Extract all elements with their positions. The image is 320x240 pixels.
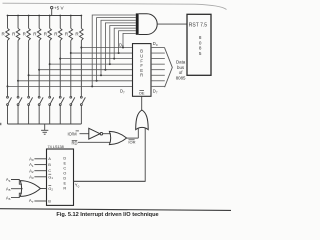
wire A6 to OR bbox=[11, 193, 22, 197]
wire A5 to OR bbox=[11, 188, 23, 190]
node: tap junction col 7 to buffer line 1 bbox=[70, 52, 72, 54]
wire: buffer output D2 bbox=[151, 58, 165, 60]
wire: buffer input line D4 from column junction to buffer bbox=[39, 69, 132, 71]
switch SW3 bbox=[28, 96, 30, 98]
wire: rail to resistor col 8 bbox=[80, 16, 82, 29]
OR gate U-up for OE bbox=[136, 110, 149, 130]
node: line D6 to AND riser bbox=[96, 80, 98, 82]
wire: IOR OR output up to OE-OR bbox=[127, 137, 139, 139]
wire switch 1 to ground rail bbox=[7, 106, 9, 125]
wire: buffer input line D3 from column junction to buffer bbox=[50, 63, 133, 65]
node: tap junction col 4 to buffer line 4 bbox=[38, 69, 40, 71]
node: +5V rail junction col 1 bbox=[7, 15, 9, 17]
wire switch 8 to ground rail bbox=[80, 106, 82, 125]
wire: buffer output D1 bbox=[151, 52, 165, 54]
wire: riser and AND gate input 8 bbox=[123, 33, 136, 47]
svg-text:A: A bbox=[48, 156, 51, 161]
wire A7 to decoder bbox=[34, 200, 46, 202]
svg-text:8085: 8085 bbox=[176, 75, 186, 80]
+5V supply terminal bbox=[51, 6, 53, 8]
svg-text:D7: D7 bbox=[120, 89, 125, 95]
wire: rail to resistor col 5 bbox=[49, 16, 51, 29]
svg-text:5: 5 bbox=[199, 51, 202, 56]
wire: resistor col 1 down to switch bbox=[7, 40, 9, 96]
svg-text:A2: A2 bbox=[29, 168, 34, 174]
OR gate for A4-A6 bbox=[20, 181, 40, 197]
resistor R (column 6) bbox=[58, 28, 62, 40]
node: tap junction col 6 to buffer line 2 bbox=[59, 58, 61, 60]
resistor R (column 2) bbox=[16, 28, 20, 40]
wire: resistor col 2 down to switch bbox=[17, 40, 19, 96]
wire: resistor col 7 down to switch bbox=[70, 40, 72, 96]
switch SW7 bbox=[70, 96, 72, 98]
resistor R (column 7) bbox=[69, 28, 73, 40]
svg-text:A1: A1 bbox=[29, 162, 34, 168]
wire: riser and AND gate input 6 bbox=[114, 28, 136, 58]
wire: buffer input line D6 from column junction to buffer bbox=[18, 80, 132, 82]
node: tap junction col 8 to buffer line 0 bbox=[80, 47, 82, 49]
wire: inverter to OR bbox=[103, 133, 111, 135]
svg-text:D0: D0 bbox=[119, 42, 124, 48]
wire: resistor col 3 down to switch bbox=[28, 40, 30, 96]
resistor R (column 5) bbox=[48, 28, 52, 40]
wire: buffer OE to OR gate bbox=[141, 96, 143, 110]
svg-text:G2: G2 bbox=[48, 186, 53, 192]
wire: resistor col 4 down to switch bbox=[38, 40, 40, 96]
scan speck at left edge bbox=[0, 123, 1, 125]
node: +5V rail junction col 6 bbox=[59, 15, 61, 17]
svg-text:+5 V: +5 V bbox=[54, 6, 65, 11]
switch SW6 bbox=[59, 96, 61, 98]
resistor R (column 4) bbox=[37, 28, 41, 40]
svg-text:0: 0 bbox=[199, 40, 202, 45]
svg-text:A7: A7 bbox=[29, 198, 34, 204]
wire A3 to decoder bbox=[34, 176, 46, 178]
wire: riser and AND gate input 5 bbox=[110, 26, 136, 65]
wire: resistor col 8 down to switch bbox=[80, 40, 82, 96]
node: line D1 to AND riser bbox=[118, 52, 120, 54]
OR gate for IOR bbox=[109, 131, 126, 144]
wire: rail to resistor col 2 bbox=[17, 16, 19, 29]
wire: riser and AND gate input 2 bbox=[97, 18, 136, 81]
wire: rail to resistor col 1 bbox=[7, 16, 9, 29]
wire: RD to OR bbox=[78, 141, 111, 143]
wire switch 2 to ground rail bbox=[17, 106, 19, 125]
node: +5V rail junction col 3 bbox=[28, 15, 30, 17]
decoder 74 LS138 box bbox=[47, 149, 74, 205]
node: +5V rail junction col 2 bbox=[17, 15, 19, 17]
svg-text:G1: G1 bbox=[48, 175, 53, 181]
node: line D4 to AND riser bbox=[104, 69, 106, 71]
switch SW1 bbox=[7, 96, 9, 98]
wire: OR output to G2 bbox=[40, 187, 46, 189]
bus gather brace bbox=[165, 48, 173, 87]
wire: riser and AND gate input 7 bbox=[119, 31, 136, 53]
svg-text:D0: D0 bbox=[153, 41, 158, 47]
node: +5V rail junction col 8 bbox=[80, 15, 82, 17]
wire: buffer input line D1 from column junction to buffer bbox=[71, 52, 133, 54]
wire switch 6 to ground rail bbox=[59, 106, 61, 125]
node: tap junction col 3 to buffer line 5 bbox=[28, 74, 30, 76]
switch SW8 bbox=[80, 96, 82, 98]
svg-text:R: R bbox=[140, 73, 143, 78]
wire switch 5 to ground rail bbox=[49, 106, 51, 125]
wire: rail to resistor col 3 bbox=[28, 16, 30, 29]
svg-text:C: C bbox=[48, 168, 51, 173]
wire A4 to OR bbox=[11, 180, 22, 185]
wire switch 7 to ground rail bbox=[70, 106, 72, 125]
buffer IC box bbox=[133, 44, 152, 97]
wire A2 to decoder bbox=[34, 170, 46, 172]
+5V rail bbox=[8, 15, 82, 17]
svg-text:8: 8 bbox=[199, 35, 202, 40]
node: line D5 to AND riser bbox=[100, 74, 102, 76]
wire: IO/M to inverter bbox=[80, 133, 89, 135]
wire: OE-OR left input stub bbox=[137, 128, 139, 138]
svg-text:RST 7.5: RST 7.5 bbox=[189, 22, 207, 28]
wire: rail to resistor col 7 bbox=[70, 16, 72, 29]
wire A1 to decoder bbox=[34, 164, 46, 166]
node: line D2 to AND riser bbox=[113, 58, 115, 60]
node: line D7 to AND riser bbox=[91, 85, 93, 87]
svg-text:Data: Data bbox=[176, 59, 186, 64]
wire: buffer input line D2 from column junction to buffer bbox=[60, 58, 132, 60]
svg-text:RD: RD bbox=[72, 141, 78, 146]
node: line D3 to AND riser bbox=[109, 63, 111, 65]
wire: rail to resistor col 6 bbox=[59, 16, 61, 29]
wire switch 3 to ground rail bbox=[28, 106, 30, 125]
svg-text:R: R bbox=[63, 185, 66, 190]
wire: buffer input line D0 from column junction to buffer bbox=[81, 47, 132, 49]
node: +5V rail junction col 5 bbox=[49, 15, 51, 17]
svg-text:A5: A5 bbox=[6, 186, 11, 192]
wire: rail to resistor col 4 bbox=[38, 16, 40, 29]
svg-text:8: 8 bbox=[199, 46, 202, 51]
wire: buffer input line D5 from column junction to buffer bbox=[29, 74, 133, 76]
svg-text:A3: A3 bbox=[29, 174, 34, 180]
switch SW4 bbox=[38, 96, 40, 98]
wire: buffer output D5 bbox=[151, 74, 165, 76]
resistor R (column 3) bbox=[27, 28, 31, 40]
wire: resistor col 5 down to switch bbox=[49, 40, 51, 96]
wire: riser and AND gate input 4 bbox=[105, 23, 135, 70]
svg-text:D7: D7 bbox=[153, 89, 158, 95]
svg-text:B: B bbox=[48, 162, 51, 167]
resistor R (column 8) bbox=[80, 28, 84, 40]
8-input AND gate bbox=[136, 13, 139, 34]
svg-text:74 LS138: 74 LS138 bbox=[48, 145, 64, 149]
8085 microprocessor box bbox=[187, 14, 211, 75]
svg-text:Y0: Y0 bbox=[75, 183, 80, 189]
switch SW2 bbox=[17, 96, 19, 98]
node: tap junction col 2 to buffer line 6 bbox=[17, 80, 19, 82]
bottom rule above caption bbox=[0, 209, 231, 211]
top border line of figure frame bbox=[3, 3, 227, 9]
svg-text:OE: OE bbox=[139, 91, 145, 96]
wire: Y0 to OE-OR (horizontal) bbox=[74, 180, 146, 182]
wire: buffer input line D7 from column junction to buffer bbox=[8, 85, 133, 87]
svg-text:Fig. 5.12 Interrupt driven I/O: Fig. 5.12 Interrupt driven I/O technique bbox=[56, 212, 158, 218]
wire: buffer output D7 bbox=[151, 85, 165, 87]
node: tap junction col 5 to buffer line 3 bbox=[49, 63, 51, 65]
svg-text:B: B bbox=[48, 199, 51, 204]
inverter (NOT gate) bbox=[89, 128, 100, 139]
wire: buffer output D4 bbox=[151, 69, 165, 71]
node: +5V rail junction col 7 bbox=[70, 15, 72, 17]
node: tap junction col 1 to buffer line 7 bbox=[7, 85, 9, 87]
wire switch 4 to ground rail bbox=[38, 106, 40, 125]
wire: buffer output D0 bbox=[151, 47, 165, 49]
wire: riser and AND gate input 3 bbox=[101, 20, 136, 75]
wire: AND output to RST 7.5 bbox=[157, 23, 187, 25]
wire: OE-OR right input from Y0 bbox=[74, 128, 146, 181]
svg-text:A6: A6 bbox=[6, 195, 11, 201]
svg-text:A4: A4 bbox=[6, 177, 11, 183]
node: +5V rail junction col 4 bbox=[38, 15, 40, 17]
svg-text:IO/M: IO/M bbox=[68, 131, 78, 136]
node: line D0 to AND riser bbox=[122, 47, 124, 49]
ground rail under switches bbox=[8, 123, 82, 125]
wire: resistor col 6 down to switch bbox=[59, 40, 61, 96]
switch SW5 bbox=[49, 96, 51, 98]
ground symbol bbox=[44, 124, 46, 130]
wire: buffer output D6 bbox=[151, 80, 165, 82]
resistor R (column 1) bbox=[6, 28, 10, 40]
wire: buffer output D3 bbox=[151, 63, 165, 65]
wire A0 to decoder bbox=[34, 158, 46, 160]
wire: riser and AND gate input 1 bbox=[92, 15, 136, 86]
